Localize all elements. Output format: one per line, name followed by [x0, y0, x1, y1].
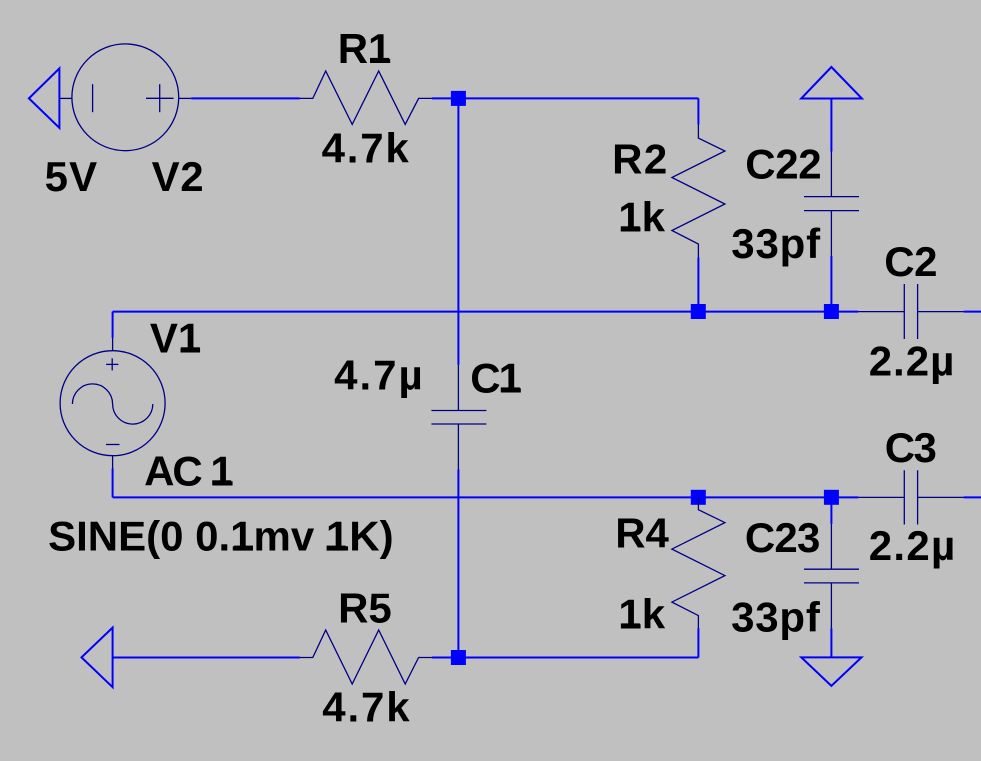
wire V2 to R1 — [191, 97, 300, 99]
svg-text:AC 1: AC 1 — [144, 447, 233, 494]
wire R1 to R2 corner (top rail) — [432, 97, 699, 99]
wire C23 to down arrow — [830, 628, 832, 657]
serif foot of digit 1 in 1k of R4 — [621, 623, 640, 628]
capacitor C2 body — [858, 284, 963, 339]
serif foot of digit 1 in C1 — [501, 387, 520, 392]
capacitor C1 body — [431, 365, 486, 469]
serif foot of digit 1 in V1 — [181, 347, 200, 352]
serif foot of digit 1 in 1K — [327, 546, 346, 551]
svg-text:2.2µ: 2.2µ — [869, 337, 956, 384]
wire V1 bottom stub — [112, 469, 114, 498]
down arrow port at C23 — [801, 657, 861, 686]
junction node mid rail at C22 — [824, 304, 839, 319]
wire R2 top drop — [697, 98, 699, 124]
wire C22 to node — [830, 256, 832, 312]
junction node lower rail at R4 — [691, 490, 706, 505]
wire lower rail V1 to C3 — [113, 496, 859, 498]
svg-text:C2: C2 — [884, 238, 937, 285]
svg-text:R5: R5 — [338, 585, 392, 632]
wire C23 node to cap — [830, 497, 832, 524]
resistor R2 body — [672, 125, 725, 258]
resistor R5 body — [300, 630, 432, 684]
junction node mid rail at R2 — [691, 304, 706, 319]
wire R2 bottom to node — [697, 258, 699, 312]
svg-text:R1: R1 — [338, 25, 392, 72]
wire C1 branch upper — [457, 98, 459, 365]
wire C3 right to edge — [964, 496, 981, 498]
junction node bottom (R5/C1) — [451, 650, 466, 665]
resistor R4 body — [672, 497, 725, 628]
junction node lower rail at C23 — [824, 490, 839, 505]
wire R4 bottom drop — [697, 628, 699, 657]
svg-text:V1: V1 — [150, 314, 201, 361]
junction node top (R1/C1) — [451, 91, 466, 106]
svg-text:R4: R4 — [615, 509, 669, 556]
svg-text:C1: C1 — [470, 354, 521, 401]
svg-text:33pf: 33pf — [731, 594, 821, 641]
serif foot of digit 1 in AC 1 — [212, 480, 231, 485]
svg-text:5V: 5V — [45, 153, 99, 200]
serif foot of digit 1 in 1k of R2 — [621, 226, 640, 231]
svg-text:C22: C22 — [745, 141, 821, 188]
resistor R1 body — [300, 71, 432, 124]
svg-text:V2: V2 — [152, 153, 205, 200]
wire C2 right to edge — [964, 311, 981, 313]
svg-text:C23: C23 — [745, 514, 820, 561]
capacitor C22 body — [804, 152, 859, 256]
svg-text:C3: C3 — [885, 424, 936, 471]
svg-text:4.7µ: 4.7µ — [334, 351, 425, 398]
svg-text:SINE(0 0.1mv 1K): SINE(0 0.1mv 1K) — [48, 513, 393, 560]
svg-text:4.7k: 4.7k — [322, 684, 411, 731]
svg-text:R2: R2 — [612, 136, 669, 183]
capacitor C23 body — [804, 524, 859, 629]
serif foot of digit 1 in 0.1mv — [234, 546, 253, 551]
left arrow port at V2 — [29, 68, 60, 128]
svg-text:4.7k: 4.7k — [322, 125, 411, 172]
up arrow port at C22 — [801, 67, 862, 99]
svg-text:2.2µ: 2.2µ — [869, 522, 957, 569]
wire R5 to R4 (bottom rail) — [432, 657, 699, 659]
voltage source V1 body — [60, 338, 165, 469]
left arrow port at R5 — [82, 628, 113, 688]
wire C22 arrow to cap — [830, 99, 832, 152]
wire V1 top stub — [112, 312, 114, 338]
serif foot of digit 1 in R1 — [370, 58, 389, 63]
voltage source V2 body — [59, 44, 191, 151]
svg-text:33pf: 33pf — [731, 220, 821, 267]
svg-text:1k: 1k — [618, 193, 665, 240]
wire mid rail V1 to C2 — [113, 311, 859, 313]
svg-text:1k: 1k — [618, 590, 665, 637]
wire arrow to R5 — [113, 657, 300, 659]
capacitor C3 body — [858, 470, 963, 524]
wire C1 branch lower — [457, 469, 459, 657]
